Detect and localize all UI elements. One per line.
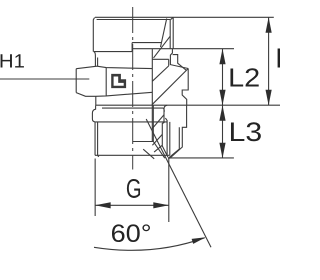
break diagonal d1 <box>161 19 167 48</box>
60 degree arc <box>94 238 205 251</box>
60 degree leader line <box>146 119 211 247</box>
label G <box>127 179 140 198</box>
bottom stud bottom edge <box>95 154 170 156</box>
oblique horizontal y59 <box>152 58 168 60</box>
neck below stud <box>94 52 95 67</box>
lower block right edge <box>170 105 187 158</box>
line A <box>132 42 161 44</box>
lower block left edge <box>162 105 168 157</box>
oblique diagonal d7 <box>152 69 188 105</box>
internal cone vertical <box>152 105 154 141</box>
hex right silhouette <box>151 49 153 142</box>
washer second line <box>102 108 164 112</box>
L1 label sliver (clipped at edge) <box>278 49 281 68</box>
hex corner vertical left <box>105 68 107 96</box>
L3 bottom extension <box>168 157 234 159</box>
oblique diagonal D_I <box>154 36 171 58</box>
bottom stud left outer <box>94 122 96 155</box>
lower 45 diagonal d10 <box>152 135 162 146</box>
bottom stud right outer <box>169 122 171 155</box>
L1 dimension line <box>268 17 270 105</box>
lower block inner line <box>169 127 180 158</box>
stud right outer vertical <box>171 18 174 49</box>
H1 leader <box>0 78 89 80</box>
cone left part <box>143 149 154 159</box>
washer left bulge <box>92 105 95 122</box>
label 60 <box>112 224 150 242</box>
step profile right <box>170 49 188 69</box>
stud top second line <box>97 19 171 21</box>
hex top mid edge <box>97 66 152 68</box>
L3 dimension line <box>222 105 224 158</box>
oblique vertical x168 <box>168 59 170 66</box>
neck below hex <box>95 96 97 105</box>
marking box <box>111 74 126 88</box>
hex top-left slant <box>76 66 97 69</box>
label L2 <box>230 68 258 86</box>
bottom stud right inner <box>166 121 168 155</box>
top extension line / stud top edge <box>95 16 274 18</box>
lower 45 diagonal d9 <box>152 115 164 128</box>
centerline <box>132 7 134 170</box>
label L3 <box>231 122 261 141</box>
internal cone horizontal <box>133 141 154 143</box>
G extension lines <box>94 159 96 217</box>
stud bottom-left edge <box>94 51 133 53</box>
line B / L2 top extension <box>132 48 234 50</box>
label H1 <box>1 54 24 67</box>
oblique diagonal d6 <box>152 66 168 81</box>
lower 45 diagonal d11 <box>154 145 162 152</box>
cone edge <box>153 142 165 159</box>
washer right step <box>165 118 167 121</box>
bottom stud left inner <box>98 122 99 157</box>
shoulder line / L2-L3 extension <box>96 104 280 106</box>
G dimension line <box>95 204 169 206</box>
stud left edge <box>93 18 94 52</box>
hex left edge <box>75 69 77 93</box>
L2 dimension line <box>222 49 224 105</box>
wire step at stud bottom <box>131 43 133 52</box>
hex bottom edges <box>76 92 152 96</box>
stud right inner vertical <box>169 20 171 49</box>
arc arrowhead <box>192 237 206 244</box>
washer bottom line <box>95 121 167 123</box>
